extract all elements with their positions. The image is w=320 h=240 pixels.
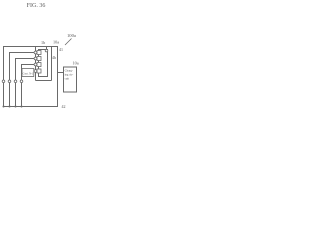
wire: vertical column 3 bbox=[15, 58, 17, 107]
svg-text:1b: 1b bbox=[41, 40, 45, 45]
svg-text:10a: 10a bbox=[53, 40, 59, 45]
pin contact circle 4 bbox=[34, 70, 37, 73]
IC bottom rail bbox=[36, 80, 52, 82]
IC right rail bbox=[51, 46, 53, 81]
wire: horizontal net 3 bbox=[15, 58, 34, 60]
IC body U1 bbox=[39, 50, 48, 77]
wire: right vertical net bbox=[57, 46, 59, 107]
pin contact circle 3 bbox=[34, 63, 37, 66]
wire: bottom bus bbox=[3, 106, 58, 108]
svg-text:41: 41 bbox=[59, 47, 63, 52]
pin pad 1 bbox=[37, 51, 41, 55]
pin pad 2 bbox=[37, 57, 41, 61]
svg-text:cuit: cuit bbox=[65, 77, 70, 81]
junction dot bus 2 bbox=[9, 106, 11, 108]
right block: charging control circuit bbox=[64, 67, 77, 92]
IC top stub wire bbox=[46, 46, 48, 49]
pin pad 4 bbox=[37, 69, 41, 73]
wire: stub to right block bbox=[58, 72, 64, 74]
svg-text:4b: 4b bbox=[52, 55, 56, 60]
pin contact circle 1 bbox=[34, 51, 37, 54]
junction dot bus 3 bbox=[15, 106, 17, 108]
IC left rail bbox=[35, 46, 37, 81]
wire: vertical column 4 bbox=[21, 64, 23, 107]
contact ring switch S3 bbox=[14, 80, 17, 83]
contact ring switch S4 bbox=[20, 80, 23, 83]
IC top contact circle bbox=[45, 49, 48, 52]
leader line from label 100a bbox=[65, 39, 72, 46]
contact ring switch S2 bbox=[8, 80, 11, 83]
contact ring switch S1 bbox=[2, 80, 5, 83]
svg-text:100a: 100a bbox=[67, 33, 76, 38]
wire: vertical column 1 bbox=[3, 46, 5, 107]
wire: top horizontal net bbox=[3, 46, 58, 48]
counter box Cont.N-1 bbox=[22, 69, 34, 77]
wire: vertical column 2 bbox=[9, 52, 11, 107]
pin pad 3 bbox=[37, 63, 41, 67]
junction dot bus 4 bbox=[21, 106, 23, 108]
svg-text:42: 42 bbox=[62, 104, 66, 109]
junction dot bus 1 bbox=[3, 106, 5, 108]
svg-text:10a: 10a bbox=[73, 61, 79, 66]
svg-text:Cont. N-1: Cont. N-1 bbox=[23, 71, 34, 75]
wire: horizontal net 2 bbox=[9, 52, 34, 54]
wire: horizontal net 4 bbox=[21, 64, 34, 66]
pin contact circle 2 bbox=[34, 57, 37, 60]
svg-text:FIG. 36: FIG. 36 bbox=[27, 3, 46, 9]
